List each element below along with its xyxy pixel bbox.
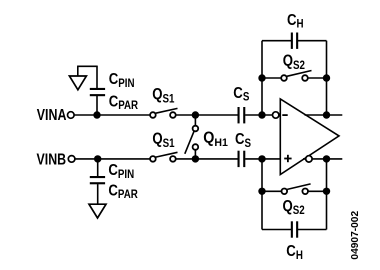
svg-text:VINA: VINA <box>37 105 67 123</box>
svg-text:04907-002: 04907-002 <box>350 211 361 260</box>
svg-text:VINB: VINB <box>37 150 67 168</box>
